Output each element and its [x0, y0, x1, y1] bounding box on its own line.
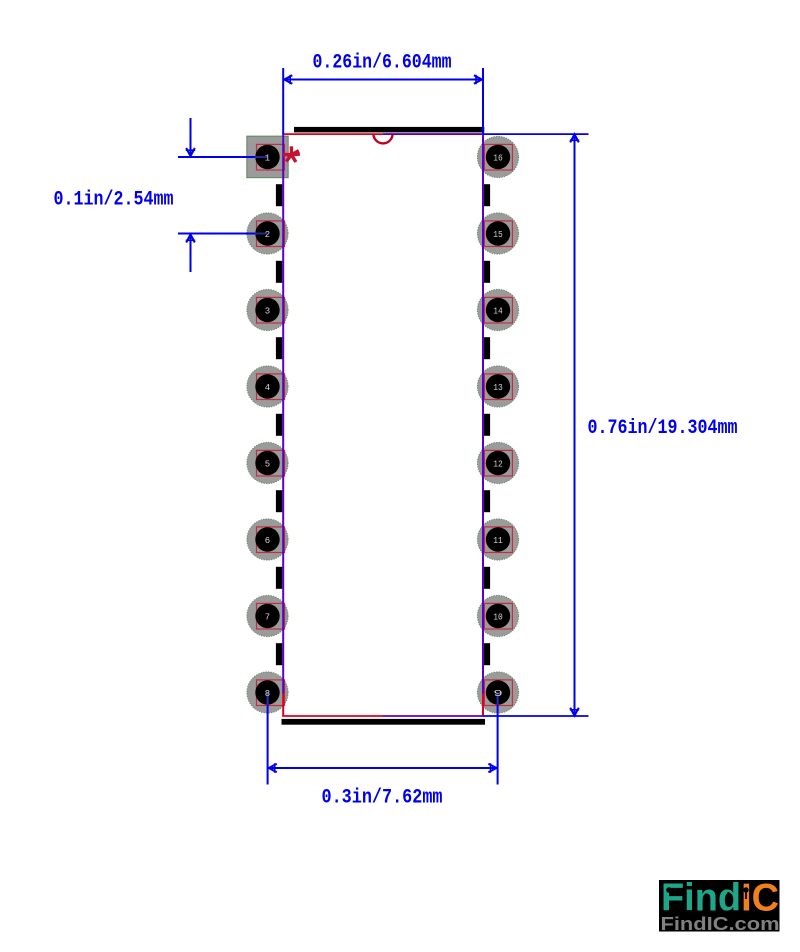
right dimension top arrowhead (up) — [570, 134, 579, 142]
svg-text:0.26in/6.604mm: 0.26in/6.604mm — [313, 52, 452, 75]
pad pin 8 (left column) — [247, 672, 288, 713]
pad pin 2 (left column) — [247, 213, 288, 254]
right dimension bottom arrowhead (down) — [570, 708, 579, 716]
bottom silkscreen overlapped by blue extension (purple) — [383, 715, 483, 717]
pad pin 1 (square pad, left column) — [247, 136, 288, 178]
pad pin 4 (left column) — [247, 366, 288, 407]
left dimension upper leader + down arrow — [190, 118, 192, 156]
right dimension bottom extension line (blue) — [483, 715, 589, 717]
package left edge lower segment (red) — [282, 694, 284, 717]
bottom dimension extension from pad 8 (blue vertical) — [267, 693, 269, 705]
pad pin 13 (right column) — [477, 366, 518, 407]
package right edge dashed black segments — [484, 184, 490, 206]
pad pin 12 (right column) — [477, 442, 518, 483]
svg-text:13: 13 — [493, 383, 503, 393]
svg-text:7: 7 — [265, 613, 270, 623]
svg-text:FindIC.com: FindIC.com — [661, 914, 780, 934]
top dimension left arrowhead — [284, 75, 292, 84]
svg-text:10: 10 — [493, 613, 503, 623]
pad pin 3 (left column) — [247, 289, 288, 330]
top dimension extension line stub left (blue) — [282, 68, 284, 134]
svg-text:0.3in/7.62mm: 0.3in/7.62mm — [322, 787, 443, 810]
pad pin 7 (left column) — [247, 595, 288, 636]
package left edge dashed black segments — [276, 184, 282, 206]
svg-text:5: 5 — [265, 460, 270, 470]
left dimension pin2 center line (blue) — [178, 233, 255, 235]
right dimension top extension line (blue) — [483, 133, 589, 135]
svg-text:4: 4 — [265, 383, 270, 393]
package left edge line overlapped by blue extension (purple) — [282, 134, 284, 693]
svg-text:14: 14 — [493, 307, 503, 317]
top dimension extension line stub right (blue) — [482, 68, 484, 134]
pad pin 10 (right column) — [477, 595, 518, 636]
pad pin 6 (left column) — [247, 519, 288, 560]
pad pin 5 (left column) — [247, 442, 288, 483]
svg-text:9: 9 — [493, 689, 503, 699]
pin 1 marker asterisk (red) — [283, 146, 300, 162]
bottom dimension right arrowhead — [488, 764, 496, 773]
top silkscreen overlapped by blue extension of right dimension (purple) — [383, 133, 483, 135]
svg-text:8: 8 — [265, 689, 270, 699]
package top edge (thick black assembly bar) — [294, 127, 484, 132]
svg-text:16: 16 — [493, 154, 503, 164]
svg-text:12: 12 — [493, 460, 503, 470]
bottom dimension line 0.3in (blue) — [268, 767, 498, 769]
package top silkscreen line (red) — [282, 133, 483, 135]
bottom dimension extension from pad 9 (blue vertical) — [497, 693, 499, 705]
svg-text:0.76in/19.304mm: 0.76in/19.304mm — [588, 417, 738, 440]
pin-1 end notch arc (red semicircle) — [373, 134, 392, 144]
svg-text:0.1in/2.54mm: 0.1in/2.54mm — [54, 189, 174, 212]
left dimension lower leader + up arrow — [190, 236, 192, 273]
svg-text:11: 11 — [493, 536, 503, 546]
pad pin 11 (right column) — [477, 519, 518, 560]
svg-text:6: 6 — [265, 536, 270, 546]
package right edge lower segment (red) — [482, 694, 484, 717]
svg-text:3: 3 — [265, 307, 270, 317]
svg-text:2: 2 — [265, 230, 270, 240]
svg-text:1: 1 — [265, 154, 270, 164]
left dimension pin1 center line (blue) — [178, 156, 255, 158]
FindIC logo circuit dots — [667, 888, 774, 904]
pad pin 15 (right column) — [477, 213, 518, 254]
top dimension right arrowhead — [474, 75, 482, 84]
package bottom edge (thick black assembly bar) — [282, 719, 486, 725]
pad pin 14 (right column) — [477, 289, 518, 330]
right dimension line 0.76in (blue vertical) — [574, 134, 576, 716]
FindIC logo background — [659, 880, 780, 932]
pad pin 16 (right column) — [477, 136, 518, 177]
bottom dimension left arrowhead — [269, 764, 277, 773]
svg-text:15: 15 — [493, 230, 503, 240]
package right edge line overlapped by blue extension (purple) — [482, 134, 484, 693]
package bottom silkscreen line (red) — [282, 715, 383, 717]
pad pin 9 (right column) — [477, 672, 518, 713]
top dimension line 0.26in (blue) — [283, 79, 483, 81]
